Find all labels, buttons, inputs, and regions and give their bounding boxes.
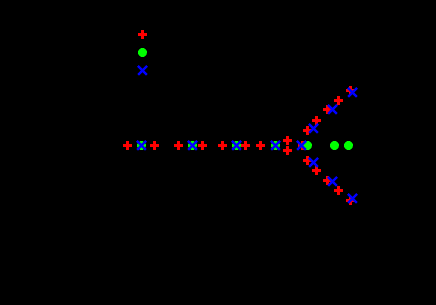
data: green circle right 3 xyxy=(344,141,353,150)
data: blue cross cluster 3 xyxy=(232,141,241,150)
data: blue cross cluster 4 xyxy=(271,141,280,150)
data: red plus split lower xyxy=(283,146,292,155)
legend sample: blue cross series xyxy=(138,66,147,75)
data: blue cross upper branch 3 xyxy=(348,88,357,97)
data: red plus at branch base xyxy=(298,141,307,150)
data: red plus lower branch 4 xyxy=(334,186,343,195)
data: red plus row point 3 xyxy=(174,141,183,150)
data: red plus lower branch 5 xyxy=(346,196,355,205)
data: blue cross lower branch 3 xyxy=(348,194,357,203)
data: red plus row point 6 xyxy=(241,141,250,150)
data: red plus row point 4 xyxy=(198,141,207,150)
data: green circle right 1 xyxy=(303,141,312,150)
data: green circle cluster 1 xyxy=(137,141,146,150)
data: red plus lower branch 1 xyxy=(303,156,312,165)
data: blue cross cluster 1 xyxy=(137,141,146,150)
data: red plus row point 1 xyxy=(123,141,132,150)
data: red plus upper branch 1 xyxy=(303,126,312,135)
data: red plus upper branch 3 xyxy=(323,105,332,114)
data: blue cross lower branch 1 xyxy=(309,158,318,167)
data: green circle cluster 3 xyxy=(232,141,241,150)
legend sample: green circle series xyxy=(138,48,147,57)
data: red plus row point 2 xyxy=(150,141,159,150)
data: blue cross upper branch 1 xyxy=(309,124,318,133)
data: blue cross cluster 2 xyxy=(188,141,197,150)
data: red plus lower branch 2 xyxy=(312,166,321,175)
data: green circle right 2 xyxy=(330,141,339,150)
data: red plus lower branch 3 xyxy=(323,176,332,185)
legend sample: red plus series xyxy=(138,30,147,39)
data: red plus upper branch 4 xyxy=(334,96,343,105)
data: red plus split upper xyxy=(283,136,292,145)
data: blue cross upper branch 2 xyxy=(328,105,337,114)
data: red plus row point 7 xyxy=(256,141,265,150)
data: red plus row point 5 xyxy=(218,141,227,150)
data: green circle cluster 4 xyxy=(271,141,280,150)
data: blue cross at branch base xyxy=(297,141,306,150)
data: blue cross lower branch 2 xyxy=(328,177,337,186)
data: red plus upper branch 5 xyxy=(346,86,355,95)
data: green circle cluster 2 xyxy=(188,141,197,150)
data: red plus upper branch 2 xyxy=(312,116,321,125)
